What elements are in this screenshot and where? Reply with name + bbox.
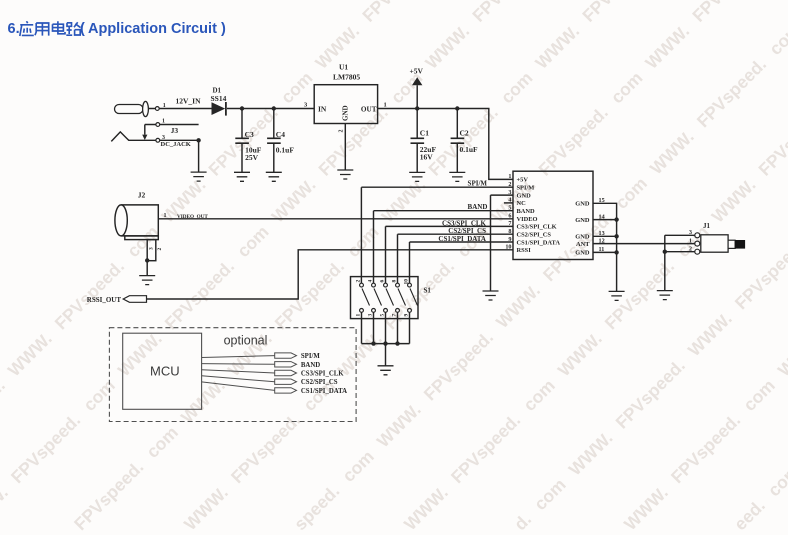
svg-text:BAND: BAND	[468, 203, 488, 211]
svg-text:LM7805: LM7805	[333, 73, 360, 82]
svg-text:0.1uF: 0.1uF	[460, 145, 479, 154]
node J3 junction	[196, 138, 200, 142]
svg-text:2: 2	[356, 280, 362, 283]
pin J3 top	[156, 123, 160, 127]
wire J1 gnd pins	[665, 235, 695, 290]
svg-text:SPI/M: SPI/M	[468, 180, 488, 188]
svg-text:1: 1	[384, 101, 387, 108]
node S1 rail junctions	[371, 341, 375, 345]
svg-text:MCU: MCU	[150, 364, 180, 379]
svg-text:4: 4	[368, 280, 374, 283]
hanzi 用	[35, 23, 49, 36]
wire IC pin2 SPI/M	[361, 187, 513, 283]
svg-text:7: 7	[392, 314, 398, 317]
svg-text:VIDEO: VIDEO	[517, 216, 538, 223]
svg-text:SS14: SS14	[211, 94, 227, 103]
ground IC pin3	[483, 291, 499, 300]
svg-text:CS2/SPI_CS: CS2/SPI_CS	[448, 227, 486, 235]
connector P1 barrel plug	[115, 101, 149, 116]
MCU flag labels	[301, 353, 347, 395]
svg-text:3: 3	[162, 135, 165, 141]
connector J1 labels	[689, 222, 711, 252]
flag MCU signal arrows	[275, 353, 297, 393]
svg-text:11: 11	[599, 246, 605, 253]
svg-text:8: 8	[508, 228, 511, 235]
svg-text:J3: J3	[171, 126, 179, 135]
svg-text:DC_JACK: DC_JACK	[161, 141, 191, 148]
node C1 tap	[415, 106, 419, 110]
svg-text:16V: 16V	[420, 152, 434, 161]
title: 6.应用电路（Application Circuit）	[8, 22, 20, 37]
ground C4	[266, 172, 282, 181]
svg-text:BAND: BAND	[517, 208, 535, 215]
switch S1 box	[351, 277, 419, 319]
svg-text:1: 1	[163, 103, 166, 109]
ground J1	[657, 291, 673, 300]
svg-text:6: 6	[508, 213, 511, 220]
svg-text:1: 1	[508, 173, 511, 180]
svg-text:2: 2	[157, 248, 163, 251]
svg-text:C1: C1	[420, 128, 429, 137]
node gnd bus junctions	[614, 217, 618, 221]
svg-text:12: 12	[599, 237, 605, 244]
diode D1 SS14	[212, 102, 226, 116]
wire IC pin11	[593, 251, 617, 253]
svg-text:CS3/SPI_CLK: CS3/SPI_CLK	[517, 224, 557, 231]
svg-text:CS3/SPI_CLK: CS3/SPI_CLK	[442, 219, 487, 227]
svg-text:0.1uF: 0.1uF	[276, 146, 295, 155]
svg-text:NC: NC	[517, 200, 527, 207]
svg-text:3: 3	[508, 189, 511, 196]
wire U1 gnd stem	[344, 124, 346, 171]
svg-text:1: 1	[689, 238, 692, 244]
svg-text:6: 6	[380, 280, 386, 283]
svg-text:GND: GND	[575, 217, 590, 224]
capacitor C4 body	[273, 109, 275, 173]
ground C1	[409, 172, 425, 181]
svg-text:2: 2	[508, 181, 511, 188]
ground C2	[449, 172, 465, 181]
wire IC pin8 CS2	[398, 234, 514, 283]
svg-text:3: 3	[304, 101, 308, 108]
ground S1	[378, 366, 394, 375]
svg-text:S1: S1	[424, 286, 432, 294]
wire MCU leads	[202, 356, 275, 391]
svg-text:CS1/SPI_DATA: CS1/SPI_DATA	[301, 388, 347, 395]
IC U2 pin numbers left	[505, 173, 511, 250]
svg-text:ANT: ANT	[576, 241, 590, 248]
wire IC pin4 stub	[504, 202, 513, 204]
wire J2 gnd stem	[146, 261, 148, 276]
ground C3	[234, 172, 250, 181]
wire +5V stem	[416, 85, 418, 108]
wire IC pin14	[593, 219, 617, 221]
power +5V arrow	[412, 77, 422, 85]
svg-text:5: 5	[508, 205, 511, 212]
ground J2	[139, 276, 155, 285]
ground U1	[337, 170, 353, 179]
svg-text:9: 9	[508, 236, 511, 243]
MCU optional dashed box	[109, 328, 356, 422]
wire IC pin13	[593, 235, 617, 237]
svg-text:15: 15	[599, 197, 605, 204]
svg-text:CS1/SPI_DATA: CS1/SPI_DATA	[438, 235, 486, 243]
ground J3	[191, 172, 207, 181]
pin S1 top row	[360, 283, 364, 287]
op U1 regulator box	[314, 85, 377, 124]
wire IC pin15 and right gnd bus	[593, 203, 617, 291]
svg-text:U1: U1	[339, 63, 348, 72]
svg-text:3: 3	[149, 247, 155, 250]
svg-text:25V: 25V	[245, 153, 259, 162]
svg-text:4: 4	[508, 197, 511, 204]
svg-text:1: 1	[164, 213, 167, 219]
node C2 tap	[455, 106, 459, 110]
wire VIDEO_OUT	[158, 218, 513, 220]
svg-text:1: 1	[162, 118, 165, 124]
hanzi 路	[66, 22, 80, 35]
svg-text:GND: GND	[517, 192, 532, 199]
svg-text:CS2/SPI_CS: CS2/SPI_CS	[301, 379, 338, 386]
svg-text:BAND: BAND	[301, 362, 320, 369]
wire IC pin9 CS1	[410, 242, 514, 283]
hanzi 电	[53, 21, 66, 34]
svg-text:7: 7	[508, 220, 511, 227]
svg-text:10: 10	[404, 279, 410, 285]
svg-text:3: 3	[368, 314, 374, 317]
connector J1 body	[701, 235, 745, 252]
svg-text:13: 13	[599, 230, 605, 237]
svg-text:CS2/SPI_CS: CS2/SPI_CS	[517, 232, 552, 239]
wire RSSI	[147, 250, 514, 299]
connector J2 body	[121, 205, 158, 236]
wire IC pin3 GND	[491, 195, 514, 291]
svg-text:+5V: +5V	[410, 66, 424, 75]
wire J3 top	[145, 125, 199, 135]
svg-text:8: 8	[392, 280, 398, 283]
svg-text:VIDEO_OUT: VIDEO_OUT	[177, 214, 208, 220]
svg-text:CS3/SPI_CLK: CS3/SPI_CLK	[301, 371, 344, 378]
pin J1 circles	[695, 233, 700, 238]
node J2 gnd junction	[145, 258, 149, 262]
node C4 tap	[272, 106, 276, 110]
MCU box	[123, 333, 202, 409]
capacitor C2 body	[456, 109, 458, 173]
svg-text:J1: J1	[703, 222, 711, 230]
svg-text:RSSI_OUT: RSSI_OUT	[87, 296, 122, 304]
svg-text:+5V: +5V	[517, 177, 529, 184]
switch S1 pin digits rotated	[356, 279, 410, 317]
node J1 gnd junction	[663, 250, 667, 254]
svg-text:14: 14	[599, 213, 605, 220]
wire J3 bottom with chevron	[111, 132, 198, 172]
svg-text:3: 3	[689, 230, 692, 236]
svg-text:9: 9	[404, 314, 410, 317]
svg-text:GND: GND	[342, 105, 350, 121]
svg-text:RSSI: RSSI	[517, 247, 532, 254]
pin plug 1	[155, 107, 159, 111]
svg-text:CS1/SPI_DATA: CS1/SPI_DATA	[517, 239, 561, 246]
capacitor C3 body	[241, 109, 243, 173]
IC U2 pin numbers right	[599, 197, 605, 253]
svg-text:IN: IN	[318, 104, 327, 113]
hanzi 应	[20, 21, 34, 36]
wire IC pin5 BAND	[374, 211, 514, 284]
svg-text:2: 2	[689, 247, 692, 253]
svg-text:5: 5	[380, 314, 386, 317]
svg-text:OUT: OUT	[361, 105, 377, 113]
svg-text:SPI/M: SPI/M	[301, 353, 320, 360]
pin S1 bottom row	[360, 309, 364, 313]
svg-text:C2: C2	[460, 128, 469, 137]
switch S1 blades	[362, 289, 418, 306]
J3 plug arrow	[142, 135, 147, 140]
text labels	[87, 63, 488, 304]
svg-text:optional: optional	[224, 334, 268, 348]
wire IC pin12 ANT	[593, 243, 695, 245]
svg-text:GND: GND	[575, 234, 590, 241]
capacitor C1 body	[416, 109, 418, 173]
wire S1 bottom rail	[362, 312, 410, 366]
svg-text:2: 2	[339, 130, 345, 133]
pin J3 bottom	[156, 138, 160, 142]
node C3 tap	[240, 106, 244, 110]
svg-text:J2: J2	[138, 191, 146, 200]
IC U2 pin labels inside left	[517, 177, 561, 254]
wire main 12V rail	[148, 109, 513, 180]
svg-text:12V_IN: 12V_IN	[176, 97, 202, 106]
IC U2 box	[513, 171, 593, 259]
svg-text:C4: C4	[276, 130, 285, 139]
svg-text:GND: GND	[575, 250, 590, 257]
svg-text:1: 1	[356, 314, 362, 317]
svg-text:GND: GND	[575, 201, 590, 208]
ground bus	[609, 291, 625, 300]
wire IC pin7 CS3	[386, 226, 514, 283]
pin circles	[155, 107, 699, 313]
svg-text:C3: C3	[245, 130, 254, 139]
svg-text:SPI/M: SPI/M	[517, 185, 535, 192]
svg-text:10: 10	[505, 244, 511, 251]
flag RSSI_OUT	[123, 296, 146, 303]
IC U2 pin labels inside right	[575, 201, 590, 257]
ground symbols	[139, 170, 673, 375]
